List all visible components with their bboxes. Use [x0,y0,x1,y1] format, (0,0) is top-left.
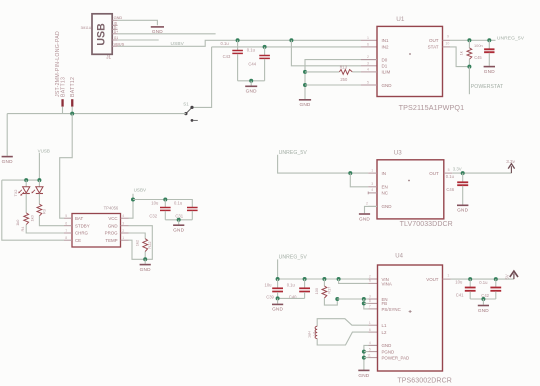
svg-text:USBV: USBV [171,41,185,47]
svg-text:GND: GND [478,308,489,313]
ground GND11 (U4) [358,370,370,377]
svg-text:6: 6 [65,222,67,226]
svg-text:4: 4 [371,188,373,192]
svg-text:GND: GND [358,373,369,378]
wire USBV to bypass caps [133,200,192,208]
wire R4 to CHRG [26,225,64,233]
svg-text:L2: L2 [382,330,387,335]
wire pad BATT13 stub [62,107,64,114]
svg-text:UNREG_5V: UNREG_5V [279,255,308,261]
svg-text:PGND: PGND [382,349,395,354]
IC U3 TLV70033 [377,150,453,228]
node junction LED2 anode [37,178,41,182]
wire VINA step [339,279,369,283]
svg-text:U1: U1 [396,16,405,23]
svg-text:6: 6 [367,43,369,47]
node junction C46 top [461,171,465,175]
node junction C39 top [276,277,280,281]
resistor R17 [314,279,332,298]
svg-text:1k: 1k [458,51,463,55]
node junction C45 top [487,38,491,42]
svg-text:100: 100 [314,287,319,294]
svg-text:3.3V: 3.3V [453,167,462,172]
wire ILIM row left [305,71,339,73]
svg-text:8: 8 [65,236,67,240]
wire gnd drop [250,81,252,86]
wire U3 OUT 3.3V [444,168,512,173]
wire battery rail [7,113,186,115]
J1 pin stubs and pin labels [112,15,124,46]
capacitor C43 [221,40,243,81]
wire USB GND pin [118,20,158,25]
svg-text:9: 9 [369,279,371,283]
svg-text:VCC: VCC [108,216,117,221]
wire battery+ to TP4056 BAT [60,114,72,219]
resistor R4 (LED1) [15,213,29,232]
svg-text:GND: GND [299,102,310,107]
svg-text:GND: GND [140,267,151,272]
svg-text:GND: GND [484,69,495,74]
svg-text:GND: GND [382,83,393,88]
svg-text:TPS2115A1PWPQ1: TPS2115A1PWPQ1 [399,103,465,112]
supply arrow 5V out [504,271,518,280]
wire R5 bottom [144,252,146,260]
svg-text:D1: D1 [382,64,388,69]
svg-text:EN: EN [382,185,388,190]
wire TEMP [129,240,146,259]
svg-text:0.1u: 0.1u [174,200,183,205]
svg-text:TEMP: TEMP [105,238,117,243]
U4 pin numbers [367,274,449,358]
svg-text:0.1u: 0.1u [247,48,256,53]
node junction R17 top [322,277,326,281]
wire EN-FB-PS tie [364,299,369,309]
node junction battery+ [70,112,74,116]
svg-text:U4: U4 [395,253,403,259]
pin stub D0 [361,59,377,61]
svg-text:R13: R13 [340,64,348,69]
svg-text:UNREG_5V: UNREG_5V [497,35,525,41]
wire IN2 line from switch [212,46,361,48]
wire cap bottoms to ground [238,80,265,82]
svg-text:PROG: PROG [105,231,119,236]
capacitor C46 [446,173,468,204]
svg-text:C39: C39 [266,295,274,300]
node junction PGND [362,350,366,354]
wire PGND row [364,351,369,353]
supply arrow 3.3v [506,159,515,173]
svg-text:VOUT: VOUT [426,277,439,282]
svg-text:IN2: IN2 [382,45,390,50]
IC U1 TPS2115A [377,16,464,112]
svg-text:BAT: BAT [75,216,84,221]
node junction FB [362,301,366,305]
node junction C40 top [303,277,307,281]
pin stub U1 IN1 [361,39,377,41]
svg-text:VUSB: VUSB [38,148,50,153]
node junction input caps gnd [276,296,280,300]
svg-text:VINA: VINA [382,281,392,286]
svg-text:OUT: OUT [429,171,439,176]
wire EN tie [350,173,368,187]
svg-text:GND: GND [457,208,468,213]
ground GND3 (battery) [2,157,14,164]
capacitor C31 [174,200,198,219]
node junction POWER_PAD [362,356,366,360]
svg-text:0.1u: 0.1u [446,174,455,179]
svg-text:1k2: 1k2 [134,240,139,246]
svg-text:BATT12: BATT12 [70,77,76,97]
capacitor C32 [149,200,170,220]
pad BATT12 [70,77,76,107]
wire U4 VOUT [443,278,514,280]
pin stub U4 VIN [369,278,378,280]
pin stub U1 IN2 [361,46,377,48]
resistor R5 (PROG) [134,239,151,252]
wire gnd drop (TP4056) [144,259,146,264]
svg-text:GND: GND [173,227,184,232]
svg-text:10u: 10u [151,200,159,205]
wire LED2 cathode [38,194,40,204]
svg-text:11: 11 [367,353,371,357]
svg-text:10u: 10u [265,283,273,288]
svg-text:BATT13: BATT13 [60,77,66,97]
node junction C32 top [163,198,167,202]
ground GND9 (C46) [457,205,469,212]
wire VCC to USBV [129,194,134,218]
ground GND8 (U3) [359,214,371,221]
svg-text:250: 250 [340,77,348,82]
svg-text:GND: GND [359,216,370,221]
wire STAT to node [450,47,469,67]
wire pad BATT12 stub [71,107,73,114]
wire TP4056 GND [129,226,153,260]
switch S1 [183,101,198,122]
svg-text:GND: GND [2,159,13,164]
pad BATT13 [60,77,66,107]
svg-text:G1: G1 [114,36,118,40]
svg-text:GND: GND [246,89,257,94]
ground GND6 (U1) [299,100,311,107]
svg-text:ILIM: ILIM [382,70,391,75]
svg-text:100n: 100n [474,43,483,48]
resistor R3 (LED2) [30,204,47,221]
svg-text:D+: D+ [114,30,118,34]
svg-text:3: 3 [369,295,371,299]
LED D1 (charge) [14,180,30,196]
node junction USBV at charger [131,198,135,202]
svg-text:C45: C45 [474,55,482,60]
pin stub U1 D1 [361,65,377,67]
IC U4 TPS63002 [378,253,452,384]
node junction TP4056 gnd [143,257,147,261]
svg-text:STAT: STAT [428,45,439,50]
node junction caps gnd [249,79,253,83]
svg-text:STDBY: STDBY [75,223,90,228]
node junction GND row [303,83,307,87]
wire R13 to ILIM [352,71,361,73]
svg-text:POWER_PAD: POWER_PAD [382,355,410,360]
inductor L3 body [308,326,318,338]
wire U1 OUT [450,39,496,41]
svg-text:TLV70033DDCR: TLV70033DDCR [400,221,453,228]
svg-text:5: 5 [369,347,371,351]
resistor R13 [339,64,352,82]
svg-text:9: 9 [447,35,449,39]
svg-text:GND: GND [272,307,283,312]
svg-text:UNREG_5V: UNREG_5V [279,150,308,156]
node junction C44 top on IN2 line [263,45,267,49]
ground GND2 (C43/C44) [245,86,257,93]
svg-text:GND: GND [382,204,393,209]
wire FB row [364,302,369,304]
wire VUSB riser [38,153,40,180]
svg-text:L1: L1 [382,323,387,328]
svg-text:TP4056: TP4056 [104,206,119,211]
svg-text:1: 1 [369,321,371,325]
TP4056 pin stubs right [121,214,129,240]
svg-text:GND: GND [152,29,163,34]
resistor R15 (pullup) [458,40,482,66]
svg-text:1: 1 [122,236,124,240]
svg-text:0.1u: 0.1u [479,280,488,285]
node junction EN net [335,297,339,301]
wire D- dangling [118,39,159,41]
wire battery rail gnd drop [6,114,8,156]
capacitor C39 [265,279,284,300]
svg-text:TPS63002DRCR: TPS63002DRCR [397,378,452,385]
capacitor C41 [455,279,475,299]
ground GND7 (C45) [484,67,496,74]
U1 pin names [382,38,439,88]
wire output caps bottoms [470,298,496,300]
capacitor C44 [247,47,270,81]
IC U2 TP4056 [72,206,121,247]
node junction POWERSTAT [467,65,471,69]
svg-text:C31: C31 [175,214,183,219]
node junction C43 top [236,38,240,42]
svg-text:6: 6 [369,328,371,332]
wire R3 to STDBY [39,216,64,226]
svg-text:CE: CE [75,238,81,243]
svg-text:FB: FB [382,301,388,306]
node junction C42 top [494,277,498,281]
svg-text:5V: 5V [504,274,509,279]
node junction EN/FB [362,297,366,301]
ground GND4 (C32/C31) [173,225,185,232]
svg-text:C41: C41 [456,293,464,298]
svg-text:5: 5 [367,81,369,85]
svg-text:NC: NC [382,191,389,196]
capacitor C40 [287,279,310,299]
svg-text:J1: J1 [106,55,111,60]
wire U3 GND [365,206,378,213]
svg-text:10: 10 [445,41,449,45]
node junction C44/D1 column [289,38,293,42]
pin stubs U4 EN FB PS [369,299,378,309]
svg-text:R22: R22 [147,241,152,248]
svg-text:1: 1 [367,36,369,40]
svg-text:3: 3 [122,222,124,226]
ground GND12 (C41/C42) [478,306,490,313]
wire LED anode rail [2,179,40,181]
wire gnd drop output caps [482,299,484,305]
connector J1 USB [81,14,113,60]
wire EN row [337,298,368,300]
svg-text:S1: S1 [183,101,189,106]
svg-text:JST-2MM-PIN-LONG-PAD: JST-2MM-PIN-LONG-PAD [55,31,61,97]
wire input caps bottoms [278,297,305,299]
TP4056 pin names [75,216,118,243]
svg-text:0.1u: 0.1u [287,283,296,288]
pin stubs U4 L1 L2 [369,325,378,332]
svg-text:8: 8 [369,299,371,303]
svg-text:VBUS: VBUS [114,41,125,46]
svg-text:1: 1 [447,274,449,278]
svg-text:10u: 10u [455,280,463,285]
node junction output caps gnd [481,297,485,301]
wire PROG [129,233,146,239]
svg-text:TX2: TX2 [14,190,18,197]
node junction R15 top [467,38,471,42]
wire gnd drop input caps [277,298,279,303]
svg-text:4: 4 [369,341,371,345]
svg-text:3: 3 [367,61,369,65]
svg-text:OUT: OUT [429,38,439,43]
svg-text:L3: L3 [311,332,316,336]
U3 pin names [382,171,440,209]
wire POWERSTAT [468,67,470,95]
svg-text:0.1u: 0.1u [221,41,230,46]
wire POWER_PAD row [364,357,369,359]
svg-text:2: 2 [367,55,369,59]
svg-text:USB: USB [95,23,107,46]
wire D0 to gnd column [305,60,377,99]
svg-text:2: 2 [366,202,368,206]
wire UNREG_5V to U3 IN [278,155,369,173]
wire U1 GND row [305,84,361,86]
wire D+ dangling [118,33,216,35]
svg-text:C32: C32 [149,214,157,219]
node junction VINA step [337,277,341,281]
svg-text:GND: GND [382,343,392,348]
svg-text:4: 4 [367,68,369,72]
pin stub U4 VINA [369,282,378,284]
wire UNREG_5V riser to rail [278,259,369,279]
svg-text:D0: D0 [382,57,388,62]
TP4056 pin stubs left [64,214,72,240]
wire VBUS to USBV riser [118,40,361,46]
pin stubs U4 GND rows [369,345,378,357]
inductor L3 loop bottom [317,332,368,345]
node junction C41 top [468,277,472,281]
U1 pin stubs left [367,36,369,85]
svg-text:USBV: USBV [134,187,147,192]
capacitor C45 [484,40,494,66]
wire caps bottoms [165,219,192,221]
node junction caps gnd (charger) [177,218,181,222]
pin stub U1 GND [361,84,377,86]
svg-text:3.3v: 3.3v [506,159,515,164]
svg-text:C46: C46 [446,187,454,192]
wire switch to IN2 riser [192,47,212,108]
svg-text:1: 1 [371,168,373,172]
LED D2 (standby) [32,180,44,193]
wire LED1 cathode [25,194,27,213]
svg-text:1k0: 1k0 [15,219,20,226]
svg-text:1k0: 1k0 [30,214,35,221]
wire gnd drop (charger caps) [178,220,180,225]
svg-text:C44: C44 [248,62,256,67]
svg-text:U3: U3 [394,150,402,157]
svg-text:R4: R4 [20,226,25,232]
ground GND5 (TP4056) [140,265,152,272]
capacitor C42 [479,279,501,299]
svg-text:3M11A: 3M11A [81,26,92,30]
svg-text:IN: IN [382,171,387,176]
svg-text:C43: C43 [223,54,231,59]
inductor L3 loop top [317,319,368,327]
svg-text:2: 2 [369,275,371,279]
svg-text:POWERSTAT: POWERSTAT [471,84,503,90]
ground GND1 (USB) [151,27,164,34]
U3 pin stubs left [366,168,377,206]
svg-text:5: 5 [448,168,450,172]
U1 pin stubs right [443,35,451,47]
svg-text:PS/SYNC: PS/SYNC [382,307,401,312]
svg-text:5: 5 [65,214,67,218]
wire U4 GND cluster [364,345,378,370]
svg-text:GND: GND [108,223,118,228]
wire D1 tie to USBV [291,40,361,66]
node junction EN tie [348,171,352,175]
svg-text:R17: R17 [327,287,332,294]
svg-text:7: 7 [65,229,67,233]
svg-text:GND: GND [114,15,123,20]
svg-text:IN1: IN1 [382,38,390,43]
svg-text:R3: R3 [43,209,47,214]
svg-text:4: 4 [122,214,124,218]
wire VUSB to CE [2,180,64,240]
node junction ILIM gnd [303,70,307,74]
wire R17 bottom to EN net [324,298,337,305]
svg-text:3: 3 [371,182,373,186]
U4 pin names [382,277,439,361]
node junction LED1 anode [24,178,28,182]
svg-text:7: 7 [369,305,371,309]
svg-text:2: 2 [122,229,124,233]
ground GND10 (C39/C40) [272,304,284,311]
svg-text:CHRG: CHRG [75,231,89,236]
